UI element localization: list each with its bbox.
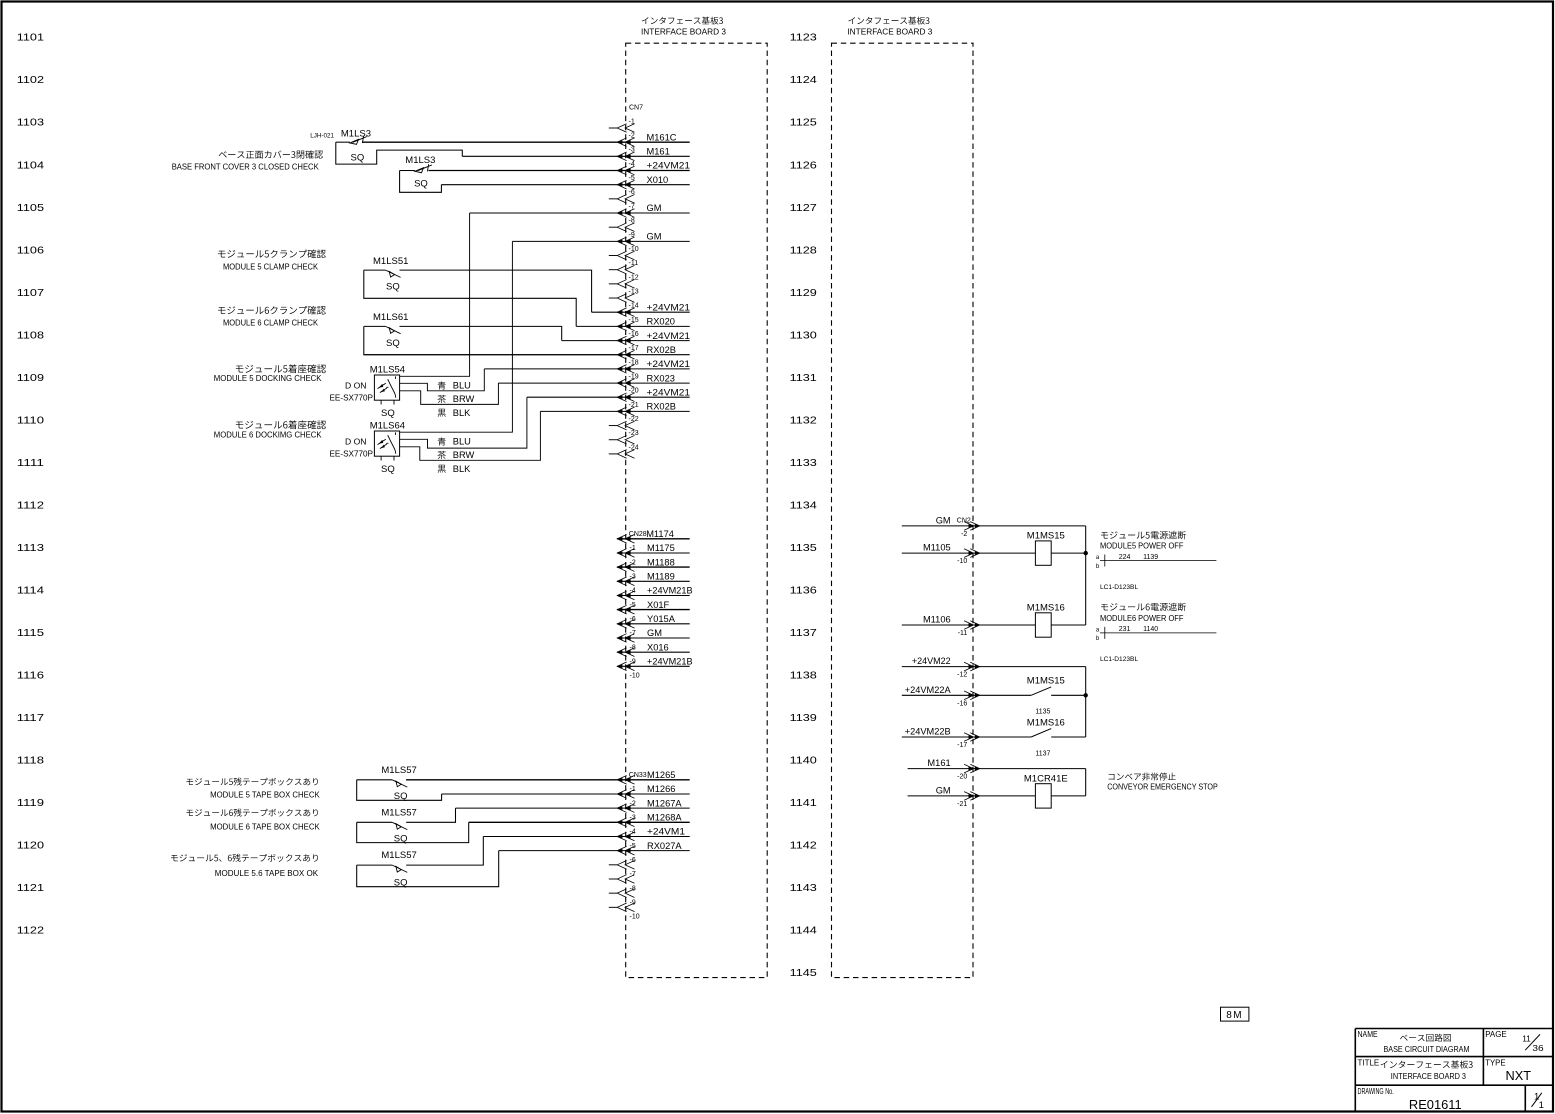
svg-text:LC1-D123BL: LC1-D123BL — [1100, 584, 1138, 591]
wire M1LS64 top terminal to GM vertical — [400, 241, 513, 432]
M1LS54 bottom terminal stubs — [381, 400, 394, 404]
svg-text:CN33: CN33 — [629, 772, 647, 779]
svg-text:INTERFACE BOARD 3: INTERFACE BOARD 3 — [1391, 1072, 1467, 1081]
svg-text:-18: -18 — [629, 359, 639, 366]
wire M1LS51 to pin14 — [400, 270, 592, 312]
CN7 pin 16 (+24VM21) — [617, 336, 634, 345]
svg-text:-8: -8 — [630, 885, 636, 892]
svg-text:M1LS57: M1LS57 — [381, 807, 416, 818]
svg-text:1131: 1131 — [790, 373, 817, 384]
svg-text:+24VM21: +24VM21 — [647, 387, 691, 397]
svg-text:RX020: RX020 — [647, 317, 675, 327]
CN33 pin 10 — [617, 903, 634, 912]
relay contact M1MS16 contact — [1031, 729, 1051, 737]
CN7 pin 23 — [617, 435, 634, 444]
wire CN7-20 +24VM21 — [527, 396, 690, 398]
svg-text:+24VM1: +24VM1 — [647, 827, 685, 837]
lead color labels BLU BRW BLK — [438, 437, 446, 445]
title block frame — [1355, 1029, 1553, 1113]
CN28 pin 5 (+24VM21B) — [617, 591, 634, 600]
CN7 pin 4 (+24VM21) — [617, 166, 634, 175]
svg-text:X01F: X01F — [647, 600, 670, 610]
CN7 pin 15 (RX020) — [617, 322, 634, 331]
wire M1LS3#2 SQ loop to pin5 — [400, 171, 442, 193]
svg-text:1110: 1110 — [17, 415, 44, 426]
label モジュール6クランプ確認 — [218, 306, 326, 315]
wire CN7-17 RX02B — [364, 354, 690, 356]
wire CN7-4 +24VM21 — [429, 170, 690, 172]
line number column 1101-1122 — [17, 33, 44, 937]
svg-text:MODULE 5 CLAMP CHECK: MODULE 5 CLAMP CHECK — [223, 262, 318, 271]
svg-text:1106: 1106 — [17, 245, 44, 256]
svg-text:BLU: BLU — [453, 437, 471, 447]
CN28 pin 1 (M1174) — [617, 535, 634, 544]
interface board 3 (right) title — [848, 17, 929, 25]
svg-text:-9: -9 — [629, 232, 635, 239]
CN33 pin 4 (M1268A) — [617, 818, 634, 827]
svg-text:M1LS57: M1LS57 — [381, 765, 416, 776]
svg-text:1125: 1125 — [790, 118, 817, 129]
svg-text:-24: -24 — [629, 444, 639, 451]
svg-text:RX02B: RX02B — [647, 402, 676, 412]
CN7 pin 22 — [617, 421, 634, 430]
svg-text:SQ: SQ — [381, 408, 395, 419]
svg-text:GM: GM — [647, 628, 662, 638]
svg-text:-8: -8 — [629, 218, 635, 225]
svg-text:1104: 1104 — [17, 160, 44, 171]
wire M1LS61 to pin16 — [400, 326, 562, 340]
CN7 pin 7 (GM) — [617, 209, 634, 218]
svg-text:M1175: M1175 — [647, 543, 675, 553]
svg-text:GM: GM — [647, 203, 662, 213]
svg-text:224: 224 — [1119, 554, 1131, 561]
svg-text:1140: 1140 — [1143, 626, 1158, 633]
svg-text:1141: 1141 — [790, 798, 817, 809]
wire M1LS57 module5,6 tape ok output jog up — [406, 836, 483, 865]
svg-text:-9: -9 — [630, 900, 636, 907]
wire CN7-16 +24VM21 — [562, 340, 690, 342]
svg-text:8M: 8M — [1226, 1010, 1243, 1021]
label モジュール5残テープボックスあり — [186, 778, 318, 786]
svg-text:X010: X010 — [647, 175, 669, 185]
CN7 pin 14 (+24VM21) — [617, 308, 634, 317]
svg-text:BLU: BLU — [453, 381, 471, 391]
svg-text:NAME: NAME — [1358, 1029, 1379, 1039]
svg-text:M1MS16: M1MS16 — [1027, 717, 1065, 728]
svg-text:EE-SX770P: EE-SX770P — [330, 449, 374, 458]
svg-text:M1MS16: M1MS16 — [1027, 602, 1065, 613]
svg-text:-7: -7 — [629, 203, 635, 210]
svg-text:GM: GM — [647, 232, 662, 242]
wire CN33-2 M1266 — [442, 793, 690, 795]
svg-text:-2: -2 — [629, 133, 635, 140]
wire M1LS54 middle terminal (BLU) — [400, 369, 485, 391]
CN7 pin 5 (X010) — [617, 180, 634, 189]
M1LS57 module5,6 tape ok contact lever — [392, 865, 407, 872]
interface board 3 box (right, dashed) — [832, 43, 974, 977]
wire CN7-2 M161C — [362, 141, 690, 143]
svg-text:-16: -16 — [629, 331, 639, 338]
CN28 pin 9 (X016) — [617, 648, 634, 657]
svg-text:MODULE 6 DOCKIMG CHECK: MODULE 6 DOCKIMG CHECK — [214, 430, 322, 439]
wire M1LS57 module5,6 tape ok left segment — [357, 864, 393, 866]
wire CN7-5 X010 — [441, 184, 689, 186]
svg-text:M161C: M161C — [647, 132, 677, 142]
svg-text:MODULE 5 DOCKING CHECK: MODULE 5 DOCKING CHECK — [214, 374, 322, 383]
CN33 pin 2 (M1266) — [617, 790, 634, 799]
svg-text:1114: 1114 — [17, 586, 44, 597]
wire M1LS61 top segment — [364, 325, 386, 327]
wire bus rows4-6 — [1085, 667, 1087, 737]
wire M1LS57 module5,6 tape ok SQ loop — [357, 851, 499, 887]
wire CN28-5 +24VM21B — [617, 595, 690, 597]
CN33 pin 3 (M1267A) — [617, 804, 634, 813]
wire CN7-14 +24VM21 — [592, 311, 690, 313]
svg-text:MODULE6 POWER OFF: MODULE6 POWER OFF — [1100, 614, 1183, 623]
svg-text:LC1-D123BL: LC1-D123BL — [1100, 656, 1138, 663]
svg-text:-11: -11 — [629, 260, 639, 267]
svg-text:M1LS64: M1LS64 — [370, 420, 405, 431]
wire M1LS57 module5 tape left segment — [357, 779, 393, 781]
svg-text:1118: 1118 — [17, 756, 44, 767]
CN7 pin 19 (RX023) — [617, 379, 634, 388]
CN33 pin 9 — [617, 889, 634, 898]
wire M1LS57 module5 tape SQ loop — [357, 780, 442, 801]
svg-text:M1106: M1106 — [923, 615, 951, 625]
wire CN7-21 RX02B — [540, 410, 689, 412]
svg-text:SQ: SQ — [386, 281, 400, 292]
label ベース正面カバー3閉確認 — [219, 150, 323, 158]
svg-text:1112: 1112 — [17, 500, 44, 511]
svg-text:-19: -19 — [629, 374, 639, 381]
relay coil M1MS15 coil — [1035, 541, 1051, 565]
svg-text:-5: -5 — [629, 175, 635, 182]
svg-text:-15: -15 — [629, 317, 639, 324]
svg-text:1116: 1116 — [17, 671, 44, 682]
svg-text:RX027A: RX027A — [647, 841, 682, 851]
lead color labels BLU BRW BLK — [438, 381, 446, 389]
CN7 pin 24 — [617, 450, 634, 459]
svg-text:1145: 1145 — [790, 968, 817, 979]
svg-text:M1LS54: M1LS54 — [370, 364, 405, 375]
M1LS61 contact lever — [386, 326, 401, 333]
CN33 pin 1 (M1265) — [617, 776, 634, 785]
svg-text:1134: 1134 — [790, 500, 817, 511]
svg-text:1109: 1109 — [17, 373, 44, 384]
CN33 pin 6 (RX027A) — [617, 846, 634, 855]
svg-text:1: 1 — [1539, 1100, 1544, 1111]
wire CN33-4 M1268A — [469, 821, 690, 823]
svg-text:M1LS61: M1LS61 — [373, 312, 408, 323]
svg-text:M1265: M1265 — [647, 770, 675, 780]
svg-text:1140: 1140 — [790, 756, 817, 767]
svg-text:INTERFACE BOARD 3: INTERFACE BOARD 3 — [847, 28, 933, 37]
wire CN28-9 X016 — [617, 651, 690, 653]
wire CN28-4 M1189 — [617, 580, 690, 582]
svg-text:1137: 1137 — [790, 628, 817, 639]
svg-text:GM: GM — [936, 785, 951, 795]
wire CN33-5 +24VM1 — [483, 836, 689, 838]
svg-text:1136: 1136 — [790, 586, 817, 597]
M1LS64 sensor box internal marks — [378, 439, 387, 448]
CN28 pin 2 (M1175) — [617, 549, 634, 558]
label モジュール5着座確認 — [236, 364, 326, 373]
label モジュール6着座確認 — [236, 420, 326, 429]
svg-text:D ON: D ON — [345, 381, 366, 391]
wire CN7-9 GM — [512, 240, 689, 242]
wire CN28-8 GM — [617, 637, 690, 639]
svg-text:CN7: CN7 — [629, 104, 643, 111]
svg-text:SQ: SQ — [386, 338, 400, 349]
wire M1LS3 left segment — [336, 141, 350, 143]
svg-text:b: b — [1096, 564, 1100, 570]
svg-text:M1174: M1174 — [646, 529, 674, 539]
CN33 pin 7 — [617, 861, 634, 870]
svg-text:M1266: M1266 — [647, 784, 675, 794]
svg-text:-3: -3 — [629, 147, 635, 154]
svg-text:1137: 1137 — [1035, 750, 1050, 757]
svg-text:1111: 1111 — [17, 458, 44, 469]
wire CN7-7 GM — [470, 212, 690, 214]
svg-text:M1LS51: M1LS51 — [373, 256, 408, 267]
relay contact M1MS15 contact — [1031, 687, 1051, 695]
M1LS51 contact lever — [386, 270, 401, 277]
svg-text:-1: -1 — [629, 118, 635, 125]
svg-text:-10: -10 — [630, 673, 640, 680]
svg-text:a: a — [1096, 555, 1100, 561]
svg-text:1120: 1120 — [17, 841, 44, 852]
svg-text:D ON: D ON — [345, 437, 366, 447]
svg-text:1117: 1117 — [17, 713, 44, 724]
CN28 pin 3 (M1188) — [617, 563, 634, 572]
svg-text:-10: -10 — [629, 246, 639, 253]
CN28 pin 6 (X01F) — [617, 605, 634, 614]
wire M1LS54 top terminal to GM vertical — [400, 213, 470, 376]
label モジュール5電源遮断 — [1101, 531, 1186, 539]
svg-text:MODULE 5 TAPE BOX CHECK: MODULE 5 TAPE BOX CHECK — [210, 790, 320, 799]
svg-text:TITLE: TITLE — [1358, 1058, 1380, 1068]
line number column 1123-1145 — [790, 33, 817, 979]
svg-text:+24VM21: +24VM21 — [647, 331, 691, 341]
svg-text:36: 36 — [1532, 1043, 1543, 1053]
wire M1LS57 module6 tape SQ loop — [357, 822, 469, 842]
wire CN28-2 M1175 — [617, 552, 690, 554]
svg-text:PAGE: PAGE — [1485, 1029, 1507, 1039]
svg-text:1122: 1122 — [17, 926, 44, 937]
svg-text:Y015A: Y015A — [647, 614, 676, 624]
M1LS3 contact lever — [350, 139, 359, 144]
CN7 pin 3 (M161) — [617, 152, 634, 161]
CN7 pin 13 — [617, 294, 634, 303]
svg-text:231: 231 — [1119, 626, 1131, 633]
svg-text:DRAWING No.: DRAWING No. — [1358, 1086, 1394, 1096]
svg-text:1113: 1113 — [17, 543, 44, 554]
M1LS54 sensor box internal marks — [378, 383, 387, 392]
svg-text:+24VM21: +24VM21 — [647, 302, 691, 312]
svg-text:MODULE 5.6 TAPE BOX OK: MODULE 5.6 TAPE BOX OK — [215, 869, 319, 878]
svg-text:1144: 1144 — [790, 926, 817, 937]
CN28 pin 7 (Y015A) — [617, 620, 634, 629]
svg-text:BLK: BLK — [453, 464, 471, 474]
svg-text:SQ: SQ — [394, 791, 408, 802]
svg-text:BASE CIRCUIT DIAGRAM: BASE CIRCUIT DIAGRAM — [1384, 1045, 1470, 1054]
M1LS64 sensor box — [374, 431, 399, 456]
label モジュール5クランプ確認 — [218, 249, 326, 258]
wire CN28-1 M1174 — [617, 538, 690, 540]
wire bus rows1-3 — [1085, 526, 1087, 625]
CN33 pin 8 — [617, 875, 634, 884]
svg-text:M1MS15: M1MS15 — [1027, 676, 1065, 687]
wire CN7-19 RX023 — [498, 382, 689, 384]
svg-text:BASE FRONT COVER 3 CLOSED CHEC: BASE FRONT COVER 3 CLOSED CHECK — [172, 163, 320, 172]
wire CN33-6 RX027A — [499, 850, 690, 852]
wire bus rows7-8 — [1085, 769, 1087, 796]
CN28 pin 10 (+24VM21B) — [617, 662, 634, 671]
wire CN7-15 RX020 — [576, 325, 690, 327]
junction dot row2 — [1084, 551, 1088, 555]
svg-text:1143: 1143 — [790, 883, 817, 894]
wire M1LS51 top segment — [364, 269, 386, 271]
wire M1LS3 SQ loop to pin3 — [336, 142, 463, 164]
svg-text:CONVEYOR EMERGENCY STOP: CONVEYOR EMERGENCY STOP — [1107, 782, 1218, 791]
svg-text:1128: 1128 — [790, 245, 817, 256]
8M marker box — [1221, 1007, 1249, 1021]
svg-text:1108: 1108 — [17, 330, 44, 341]
wire CN7-18 +24VM21 — [484, 368, 689, 370]
wire M1LS57 module6 tape left segment — [357, 821, 393, 823]
wire CN28-6 X01F — [617, 609, 690, 611]
svg-text:1139: 1139 — [1143, 554, 1158, 561]
svg-text:RE01611: RE01611 — [1409, 1098, 1462, 1112]
CN7 pin 10 — [617, 251, 634, 260]
svg-text:-12: -12 — [629, 274, 639, 281]
svg-text:1101: 1101 — [17, 33, 44, 44]
CN33 pin 5 (+24VM1) — [617, 832, 634, 841]
wire M1LS64 middle terminal (BLU) — [400, 397, 527, 448]
svg-text:1123: 1123 — [790, 33, 817, 44]
svg-text:EE-SX770P: EE-SX770P — [330, 393, 374, 402]
svg-text:+24VM22: +24VM22 — [912, 656, 951, 666]
svg-text:-7: -7 — [630, 871, 636, 878]
M1LS57 module6 tape contact lever — [392, 822, 407, 829]
svg-text:-6: -6 — [629, 189, 635, 196]
svg-text:INTERFACE BOARD 3: INTERFACE BOARD 3 — [641, 28, 727, 37]
wire M1LS64 lower terminal (BRW) — [400, 411, 541, 460]
svg-text:MODULE 6 CLAMP CHECK: MODULE 6 CLAMP CHECK — [223, 319, 318, 328]
svg-text:MODULE 6 TAPE BOX CHECK: MODULE 6 TAPE BOX CHECK — [210, 822, 320, 831]
svg-text:TYPE: TYPE — [1485, 1058, 1506, 1068]
svg-text:1135: 1135 — [790, 543, 817, 554]
CN7 pin 17 (RX02B) — [617, 350, 634, 359]
svg-text:-11: -11 — [958, 630, 968, 637]
svg-text:-6: -6 — [630, 857, 636, 864]
svg-text:11: 11 — [1522, 1033, 1531, 1043]
svg-text:M1189: M1189 — [647, 572, 675, 582]
svg-text:1115: 1115 — [17, 628, 44, 639]
CN7 pin 20 (+24VM21) — [617, 393, 634, 402]
svg-text:-14: -14 — [629, 303, 639, 310]
svg-text:1132: 1132 — [790, 415, 817, 426]
svg-text:1129: 1129 — [790, 288, 817, 299]
svg-text:-2: -2 — [961, 531, 967, 538]
svg-text:SQ: SQ — [351, 153, 365, 164]
svg-text:+24VM22A: +24VM22A — [905, 685, 952, 695]
svg-text:-22: -22 — [629, 416, 639, 423]
svg-text:-21: -21 — [629, 402, 639, 409]
svg-text:M1188: M1188 — [647, 557, 675, 567]
svg-text:+24VM21: +24VM21 — [647, 359, 691, 369]
wire CN28-10 +24VM21B — [617, 665, 690, 667]
wire M1LS3#2 left segment — [400, 170, 415, 172]
svg-text:-20: -20 — [629, 388, 639, 395]
svg-text:1103: 1103 — [17, 118, 44, 129]
svg-text:X016: X016 — [647, 642, 669, 652]
wire CN7-3 M161 — [462, 155, 689, 157]
svg-text:SQ: SQ — [394, 833, 408, 844]
svg-text:M1MS15: M1MS15 — [1027, 531, 1065, 542]
svg-text:1102: 1102 — [17, 75, 44, 86]
svg-text:1121: 1121 — [17, 883, 44, 894]
svg-text:1105: 1105 — [17, 203, 44, 214]
svg-text:SQ: SQ — [414, 179, 428, 190]
CN7 pin 1 — [617, 124, 634, 133]
svg-text:1133: 1133 — [790, 458, 817, 469]
svg-text:-10: -10 — [630, 914, 640, 921]
svg-text:-17: -17 — [629, 345, 639, 352]
svg-text:-16: -16 — [957, 700, 967, 707]
svg-text:-17: -17 — [957, 742, 967, 749]
label モジュール6電源遮断 — [1101, 603, 1186, 611]
cross-reference table M1MS15 (a/b 224 1139) — [1100, 555, 1216, 567]
svg-text:NXT: NXT — [1506, 1068, 1532, 1083]
svg-text:1135: 1135 — [1035, 709, 1050, 716]
svg-text:M1268A: M1268A — [647, 813, 682, 823]
relay coil M1MS16 coil — [1035, 613, 1051, 637]
svg-text:M161: M161 — [927, 758, 950, 768]
svg-text:-21: -21 — [957, 801, 967, 808]
svg-text:-10: -10 — [957, 558, 967, 565]
wire CN33-3 M1267A — [456, 807, 690, 809]
svg-text:-23: -23 — [629, 430, 639, 437]
svg-text:SQ: SQ — [394, 877, 408, 888]
svg-text:a: a — [1096, 627, 1100, 633]
label モジュール6残テープボックスあり — [186, 809, 318, 817]
svg-text:1126: 1126 — [790, 160, 817, 171]
M1LS54 sensor box — [374, 375, 399, 400]
svg-text:+24VM21B: +24VM21B — [647, 586, 693, 596]
wire CN33-1 M1265 — [406, 779, 690, 781]
cross-reference table M1MS16 (a/b 231 1140) — [1100, 627, 1216, 639]
relay coil M1CR41E coil — [1035, 784, 1051, 808]
wire M1LS51 SQ loop to pin15 — [364, 270, 576, 326]
M1LS3#2 contact lever — [415, 168, 424, 173]
svg-text:1138: 1138 — [790, 671, 817, 682]
svg-text:MODULE5 POWER OFF: MODULE5 POWER OFF — [1100, 542, 1183, 551]
svg-text:LJH-021: LJH-021 — [310, 133, 334, 140]
CN7 pin 6 — [617, 195, 634, 204]
interface board 3 (left) title — [642, 17, 723, 25]
svg-text:BRW: BRW — [453, 450, 475, 460]
CN28 pin 4 (M1189) — [617, 577, 634, 586]
svg-text:1130: 1130 — [790, 330, 817, 341]
svg-text:M1LS3: M1LS3 — [341, 128, 371, 139]
svg-text:RX02B: RX02B — [647, 345, 676, 355]
svg-text:-20: -20 — [957, 774, 967, 781]
CN7 pin 12 — [617, 280, 634, 289]
M1LS64 bottom terminal stubs — [381, 456, 394, 460]
svg-text:M1105: M1105 — [923, 543, 951, 553]
svg-text:+24VM21: +24VM21 — [647, 161, 691, 171]
